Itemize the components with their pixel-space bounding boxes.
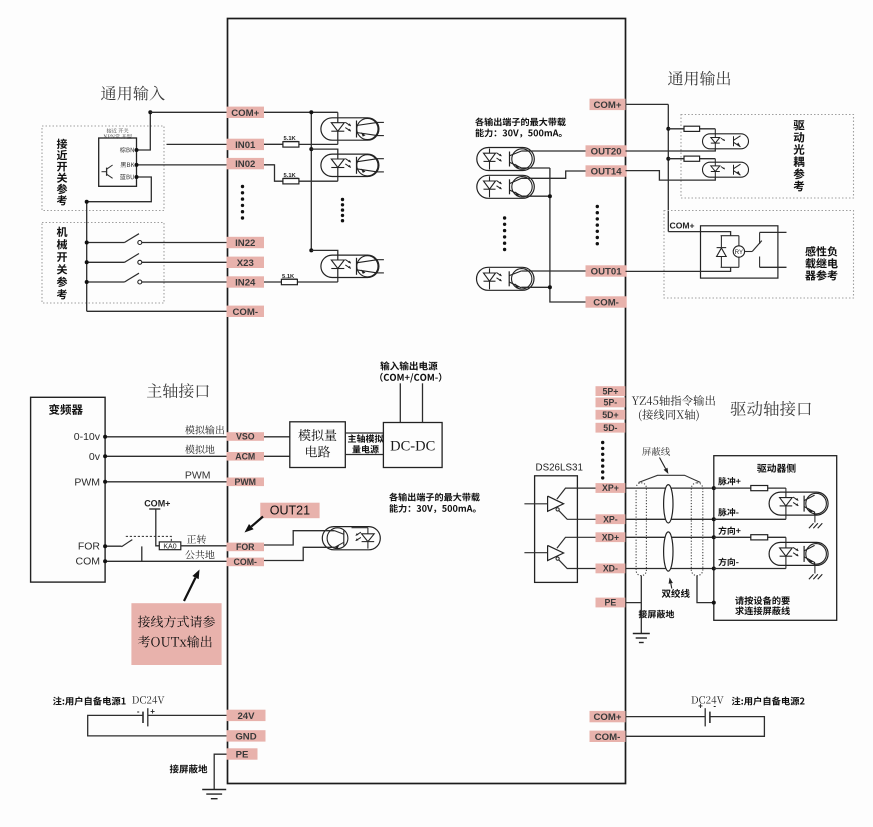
svg-text:PWM: PWM <box>235 477 257 487</box>
svg-text:OUT01: OUT01 <box>591 266 623 277</box>
optocoupler U3 (IN24) <box>321 255 384 277</box>
svg-text:5P+: 5P+ <box>602 386 618 396</box>
wire dir- row <box>714 568 786 570</box>
wire PE to earth <box>214 754 226 789</box>
junction dot 0v <box>103 454 107 458</box>
battery B2 DC24V <box>698 702 716 727</box>
wire pulse+ row <box>714 487 786 489</box>
title 主轴接口 (spindle interface) <box>147 383 209 398</box>
junction dot rail top <box>309 110 313 114</box>
LED cathode wire opto3 <box>337 278 339 283</box>
label 方向- <box>718 558 738 566</box>
right shield drain to driver <box>697 576 714 603</box>
label 主轴模拟量电源 <box>348 434 383 442</box>
junction dot OUT14 emitter <box>548 194 552 198</box>
wire COM+ row (left) <box>150 111 337 113</box>
COM+ feed bar <box>149 508 160 510</box>
wire COM- row (left) <box>87 310 228 312</box>
terminal XD+ <box>596 532 626 542</box>
svg-text:5P-: 5P- <box>604 398 618 408</box>
junction dot OUT01 emitter <box>548 285 552 289</box>
label 接屏蔽地 (bottom) <box>170 764 208 773</box>
wire power feed left <box>399 383 401 422</box>
line driver gate B <box>524 537 595 568</box>
label 接屏蔽地 (axis) <box>639 610 675 619</box>
wire OUT01 emitter to COM- rail <box>521 286 550 288</box>
wire XP- to driver <box>625 518 713 520</box>
relay contact switch <box>745 232 762 267</box>
LED cathode wire opto2 <box>337 177 339 182</box>
wire OUT01 collector to terminal <box>521 270 585 272</box>
terminal COM+ (output) <box>590 99 626 110</box>
branch wire to optocoupler 2 <box>311 149 338 154</box>
svg-text:COM+: COM+ <box>144 499 170 509</box>
wire COM+ to reference rail <box>626 103 669 105</box>
output optocoupler U6 (OUT01) <box>477 267 535 290</box>
wire label 模拟地 <box>185 445 214 454</box>
terminal IN02 <box>227 158 265 169</box>
driver side box 驱动器侧 <box>714 456 837 621</box>
wire KA0 to FOR terminal 正转 <box>181 545 228 547</box>
wire PWM row <box>105 481 227 483</box>
junction dot BN pin <box>135 148 139 152</box>
LED wires row1 <box>785 488 787 492</box>
svg-text:OUT14: OUT14 <box>591 166 623 177</box>
emitter to chassis ground row2 <box>814 565 816 573</box>
terminal COM- (power) <box>590 731 626 742</box>
label 变频器 <box>49 404 83 415</box>
wire power feed right <box>422 383 424 422</box>
svg-text:XD-: XD- <box>603 564 618 574</box>
wire FOR to OUT21 opto collector <box>264 531 335 545</box>
callout 接线方式请参考OUTx输出 <box>131 603 221 665</box>
label 输入输出电源（COM+/COM-） <box>380 361 437 370</box>
reference optocoupler row1 <box>703 134 749 149</box>
junction dot rail IN22 <box>85 241 89 245</box>
spindle terminal VSO <box>227 432 265 441</box>
wire OUT21 opto emitter to COM- <box>264 547 335 560</box>
wire ACM row 模拟地 <box>105 455 290 457</box>
switch S3 (IN24) with wire <box>87 273 228 284</box>
wire COM row 公共地 <box>105 560 227 562</box>
junction dot ref row1 <box>666 127 670 131</box>
wire battery2 return loop <box>625 717 764 737</box>
wire label 模拟输出 <box>185 425 224 434</box>
label 驱动器侧 <box>757 463 795 472</box>
resistor 5.1K (IN01) <box>283 142 299 147</box>
svg-text:OUT20: OUT20 <box>591 146 622 157</box>
svg-text:XP+: XP+ <box>602 483 619 493</box>
wire IN24 row to opto 3 <box>264 281 338 283</box>
junction dot BU pin <box>135 175 139 179</box>
junction dot COM+ corner <box>148 110 152 114</box>
label 感性负载继电器参考 <box>805 246 837 256</box>
terminal COM+ (input) <box>227 107 265 118</box>
twisted pair shield right sleeve <box>691 483 703 576</box>
line driver DS26LS31 box <box>535 476 578 583</box>
LED feed wire row2 <box>714 159 716 163</box>
svg-text:XD+: XD+ <box>602 532 619 542</box>
svg-text:IN24: IN24 <box>235 277 256 288</box>
svg-text:COM-: COM- <box>234 557 258 567</box>
junction dot PWM <box>103 480 107 484</box>
junction dot ref row2 <box>666 157 670 161</box>
load capability note (middle) <box>389 493 480 502</box>
svg-text:PE: PE <box>605 598 617 608</box>
label 请按设备的要求连接屏蔽线 <box>735 596 789 605</box>
output optocoupler U4 (OUT20) <box>477 148 535 171</box>
wire analog to DC-DC upper <box>345 432 383 434</box>
svg-text:+: + <box>150 707 155 716</box>
svg-text:COM-: COM- <box>593 297 619 308</box>
switch S2 (X23) with wire <box>87 254 228 265</box>
svg-text:IN01: IN01 <box>235 140 256 151</box>
wire XD- to driver <box>625 568 713 570</box>
wire COM+ to battery2 <box>625 716 705 718</box>
earth ground (PE) <box>202 790 226 799</box>
analog circuit box 模拟量电路 <box>290 422 346 468</box>
wire label 公共地 <box>185 550 214 559</box>
wire OUT14 to ref opto2 cathode <box>626 171 716 181</box>
resistor driver row2 <box>751 535 768 540</box>
relay coil KA0 <box>159 542 181 550</box>
pin label 黑BK <box>121 162 135 167</box>
label 方向+ <box>718 526 740 534</box>
left shield drain to ground <box>640 576 642 634</box>
terminal OUT01 <box>586 265 627 276</box>
wire OUT20 to ref opto1 cathode <box>626 149 716 151</box>
svg-text:PWM: PWM <box>74 476 100 488</box>
junction dot rail IN02 branch <box>309 147 313 151</box>
wire pulse- row <box>714 518 786 520</box>
wire OUT14 emitter to COM- rail <box>521 195 550 197</box>
label 脉冲+ <box>718 477 740 485</box>
svg-text:COM+: COM+ <box>231 108 259 119</box>
driver optocoupler row1 <box>769 492 828 515</box>
wire ref row2 with resistor <box>668 158 715 160</box>
wire XD+ to driver <box>625 536 713 538</box>
junction dot XD+ entry <box>712 535 716 539</box>
wire dir+ row <box>714 536 786 538</box>
svg-text:OUT21: OUT21 <box>270 504 310 518</box>
spindle terminal ACM <box>227 452 265 461</box>
wire COM+ to relay coil KA0 <box>156 509 160 546</box>
ellipsis 5-axis terminals <box>601 441 604 480</box>
wire XP+ to driver <box>625 487 713 489</box>
terminal COM- (output) <box>586 296 627 307</box>
inverter box 变频器 <box>31 397 106 582</box>
twisted pair loop 1 <box>664 485 673 523</box>
junction dot 0-10v <box>103 435 107 439</box>
svg-text:COM+: COM+ <box>594 100 622 111</box>
wire IN02 step down to resistor <box>264 165 338 181</box>
wire analog to DC-DC lower <box>345 454 383 456</box>
svg-text:-: - <box>713 702 716 711</box>
resistor ref row1 <box>684 126 700 131</box>
twisted pair shield left sleeve <box>636 483 646 576</box>
svg-text:XP-: XP- <box>603 514 618 524</box>
label 脉冲- <box>718 508 738 516</box>
label DC24V (left) <box>132 696 164 704</box>
svg-text:5D-: 5D- <box>603 423 617 433</box>
LED feed wire row1 <box>714 129 716 134</box>
ellipsis between IN02 and IN22 <box>241 185 244 220</box>
svg-text:PE: PE <box>236 749 249 760</box>
svg-text:IN22: IN22 <box>235 238 255 249</box>
spindle terminal COM- <box>227 558 265 567</box>
terminal 5P+ <box>596 386 626 396</box>
branch wire to optocoupler 3 <box>311 250 338 255</box>
junction dot XP- entry <box>712 517 716 521</box>
resistor driver row1 <box>751 486 768 491</box>
note 注:用户自备电源2 <box>732 697 805 706</box>
twisted pair loop 2 <box>664 532 673 571</box>
battery B1 DC24V <box>137 707 155 726</box>
ellipsis output terminal column <box>596 205 599 246</box>
COM- collector rail <box>550 168 586 302</box>
terminal OUT14 <box>586 165 627 176</box>
wire relay contact top terminal <box>760 231 787 233</box>
junction dot XP+ entry <box>712 486 716 490</box>
shield roof <box>639 475 701 482</box>
pin label 蓝BU <box>120 174 134 180</box>
COM+ vertical rail to input optocouplers <box>310 112 312 250</box>
LED anode wire opto1 <box>337 112 339 118</box>
wire VSO row 模拟输出 <box>105 436 290 438</box>
terminal IN24 <box>227 276 265 287</box>
terminal XD- <box>596 564 626 574</box>
svg-text:GND: GND <box>235 731 256 742</box>
dashed box proximity switch reference 接近开关参考 <box>42 126 164 211</box>
wire relay bottom node to OUT01 <box>626 267 731 271</box>
svg-text:DC-DC: DC-DC <box>390 439 435 455</box>
resistor 5.1K (IN02) <box>283 179 299 184</box>
label DC24V (right) <box>691 696 723 704</box>
label (接线同X轴) <box>639 409 699 421</box>
ellipsis output opto column <box>503 216 506 251</box>
svg-text:KA0: KA0 <box>163 543 176 550</box>
svg-text:VSO: VSO <box>236 432 255 442</box>
wire OUT20 collector to terminal <box>522 150 586 152</box>
junction dot FOR <box>103 544 107 548</box>
terminal X23 <box>227 257 265 268</box>
wire relay contact bottom terminal <box>760 266 787 268</box>
junction dot COM <box>103 559 107 563</box>
terminal GND <box>227 730 266 741</box>
title 驱动轴接口 (drive axis interface) <box>731 401 811 416</box>
label YZ45轴指令输出 <box>632 395 715 406</box>
label 屏蔽线 with arrow <box>642 447 670 456</box>
terminal PE <box>596 598 626 608</box>
relay contact KA0 blade <box>122 540 133 547</box>
arrow OUT21 to FOR <box>251 517 263 527</box>
dashed box inductive load relay reference 感性负载继电器参考 <box>664 211 854 299</box>
spindle terminal PWM <box>227 478 265 487</box>
LED cathode wire opto1 <box>337 140 339 144</box>
driver optocoupler row2 <box>769 542 828 565</box>
title 通用输入 (general input) <box>101 86 165 101</box>
terminal COM- (input) <box>227 306 265 317</box>
wire IN01 row stub into dashed box <box>167 143 284 145</box>
svg-text:FOR: FOR <box>236 542 255 552</box>
svg-text:ACM: ACM <box>235 451 255 461</box>
vertical label 机械开关参考 <box>57 227 68 237</box>
svg-text:+: + <box>698 702 703 711</box>
resistor ref row2 <box>684 156 700 161</box>
wire BK pin to IN02 <box>137 164 275 166</box>
wire BN pin to COM+ rail <box>137 112 151 150</box>
terminal 5D+ <box>596 410 626 420</box>
transistor inside proximity switch <box>102 165 113 178</box>
vertical label 接近开关参考 <box>57 139 67 149</box>
svg-text:IN02: IN02 <box>235 159 255 170</box>
terminal XP- <box>596 514 626 524</box>
wire PE to shield drain <box>625 602 641 604</box>
switch S1 (IN22) with wire <box>87 234 228 245</box>
reference optocoupler row2 <box>703 162 749 177</box>
wire battery1 return loop <box>88 715 227 736</box>
wire OUT14 collector step to terminal <box>522 171 586 178</box>
svg-text:COM-: COM- <box>595 732 621 743</box>
terminal 5D- <box>596 423 626 433</box>
terminal XP+ <box>596 483 626 493</box>
DC-DC converter box <box>383 423 442 468</box>
wire BU pin down to common rail <box>87 177 152 311</box>
junction dot common rail corner <box>85 200 89 204</box>
svg-text:COM+: COM+ <box>670 221 695 231</box>
wire IN01 row to opto 1 <box>264 143 338 145</box>
svg-text:PWM: PWM <box>185 470 211 482</box>
junction dot shield entry <box>712 601 716 605</box>
wire OUT20 emitter to COM- rail <box>522 167 550 169</box>
callout OUT21 <box>260 503 319 519</box>
terminal IN22 <box>227 237 265 248</box>
ellipsis input opto column <box>341 198 344 223</box>
wire ref row1 with resistor <box>668 128 715 130</box>
flyback diode D1 with relay coil RY parallel <box>717 236 745 268</box>
wire label 正转 <box>187 535 206 544</box>
dashed box mechanical switch reference 机械开关参考 <box>42 223 164 304</box>
optocoupler U1 (IN01) <box>321 118 384 140</box>
spindle terminal FOR <box>227 543 265 552</box>
optocoupler U2 (IN02) <box>321 154 384 176</box>
svg-text:COM-: COM- <box>232 307 258 318</box>
emitter to chassis ground row1 <box>814 515 816 522</box>
svg-text:RY: RY <box>735 250 743 256</box>
relay outer box <box>701 226 778 278</box>
wire FOR pin to contact <box>105 545 121 547</box>
junction dot rail X23 <box>85 260 89 264</box>
dashed mechanical link <box>126 536 172 542</box>
svg-text:COM: COM <box>76 556 101 568</box>
contact post to COM wire <box>141 546 143 561</box>
svg-text:-: - <box>137 707 140 716</box>
terminal PE (bottom) <box>227 748 258 759</box>
note 注:用户自备电源1 <box>53 697 126 706</box>
line driver gate A <box>524 488 595 519</box>
terminal 24V <box>227 710 266 721</box>
OUT21 optocoupler (mirrored) <box>322 527 380 550</box>
junction dot XD- entry <box>712 567 716 571</box>
arrow callout to COM- wire <box>184 578 196 601</box>
junction dot BK pin <box>135 163 139 167</box>
svg-text:0v: 0v <box>89 451 101 463</box>
svg-text:X23: X23 <box>237 258 254 269</box>
svg-text:5D+: 5D+ <box>602 410 618 420</box>
wire battery1 to 24V <box>148 714 227 716</box>
dashed box drive opto reference 驱动光耦参考 <box>681 115 854 199</box>
wire COM+ rail into relay box <box>668 232 730 236</box>
controller main board outline <box>228 19 626 784</box>
load capability note 各输出端子的最大带载能力 (top) <box>475 117 566 126</box>
COM+ reference vertical rail <box>667 104 669 231</box>
shield earth ground <box>633 634 650 643</box>
output optocoupler U5 (OUT14) <box>477 175 535 198</box>
LED wires row2 <box>785 537 787 542</box>
pin label 棕BN <box>120 147 134 153</box>
svg-text:FOR: FOR <box>78 540 101 552</box>
proximity switch NPN box <box>99 138 137 186</box>
label 接近 开关 / NPN常 开型 <box>107 128 129 133</box>
label 双绞线 with arrow <box>662 589 690 598</box>
terminal OUT20 <box>586 145 627 156</box>
terminal IN01 <box>227 139 265 150</box>
label 模拟量电路 <box>298 429 336 441</box>
resistor 5.1K (IN24) <box>281 279 297 284</box>
svg-text:24V: 24V <box>237 711 255 722</box>
svg-text:DS26LS31: DS26LS31 <box>536 462 583 473</box>
svg-text:0-10v: 0-10v <box>74 431 101 443</box>
vertical label 驱动光耦参考 <box>793 120 804 130</box>
title 通用输出 (general output) <box>668 71 730 86</box>
terminal COM+ (power) <box>590 711 626 722</box>
junction dot rail IN24 <box>85 280 89 284</box>
junction dot rail X23 branch <box>309 248 313 252</box>
terminal 5P- <box>596 398 626 408</box>
svg-text:COM+: COM+ <box>594 712 622 723</box>
